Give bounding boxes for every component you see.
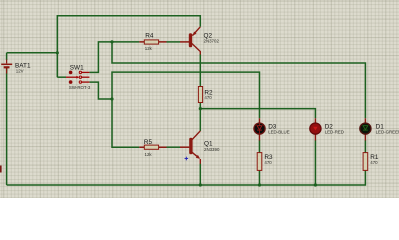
svg-text:470: 470 bbox=[370, 160, 378, 165]
svg-text:R4: R4 bbox=[145, 33, 154, 40]
svg-text:R5: R5 bbox=[144, 139, 153, 146]
svg-text:12V: 12V bbox=[16, 69, 24, 74]
svg-text:SW1: SW1 bbox=[70, 65, 84, 72]
svg-text:SW-ROT-3: SW-ROT-3 bbox=[69, 85, 91, 90]
svg-text:470: 470 bbox=[264, 160, 272, 165]
svg-text:LED-RED: LED-RED bbox=[325, 130, 344, 135]
svg-text:LED-BLUE: LED-BLUE bbox=[268, 130, 290, 135]
svg-text:12k: 12k bbox=[145, 46, 153, 51]
svg-text:LED-GREEN: LED-GREEN bbox=[376, 130, 399, 135]
svg-text:2N3390: 2N3390 bbox=[204, 147, 220, 152]
svg-text:2N3702: 2N3702 bbox=[204, 39, 220, 44]
svg-text:470: 470 bbox=[204, 95, 212, 100]
svg-text:12k: 12k bbox=[145, 152, 153, 157]
